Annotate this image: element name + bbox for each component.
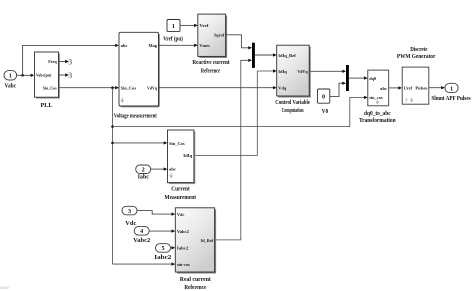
wire sin_cos long branch to dq0_to_abc	[113, 96, 368, 127]
wire Mux1 to IdIq_Ref	[255, 53, 277, 56]
wire Mux2 to dq0	[349, 76, 368, 79]
Current Measurement block	[165, 130, 197, 201]
svg-text:Vmes: Vmes	[199, 43, 210, 48]
wire Vabc to PLL input	[17, 74, 35, 77]
svg-text:1: 1	[172, 23, 175, 30]
svg-text:Mag: Mag	[149, 43, 158, 48]
svg-text:dq0: dq0	[369, 76, 377, 81]
wire Current IdIq to CVC IdIq	[194, 69, 277, 155]
outport 1 Shunt APF Pulses	[431, 83, 471, 102]
svg-text:1: 1	[9, 73, 12, 80]
svg-text:3: 3	[68, 57, 72, 66]
svg-text:Id_Ref: Id_Ref	[201, 238, 214, 243]
wire PLL wt to terminator	[59, 73, 69, 76]
svg-text:VdVq: VdVq	[147, 86, 157, 91]
svg-text:Pulses: Pulses	[415, 86, 427, 91]
svg-text:Vabc(pu): Vabc(pu)	[36, 73, 52, 78]
svg-text:IdIq: IdIq	[278, 69, 287, 74]
svg-text:Voltage measurement: Voltage measurement	[114, 112, 158, 119]
mux M2	[346, 65, 349, 91]
svg-text:IdIq: IdIq	[183, 153, 192, 158]
svg-text:0: 0	[322, 94, 325, 101]
svg-text:?: ?	[405, 99, 408, 105]
svg-text:Control Variable: Control Variable	[275, 99, 310, 106]
wire Sin_Cos vertical trunk	[112, 88, 114, 264]
svg-text:Freq: Freq	[48, 59, 57, 64]
svg-text:Reference: Reference	[184, 284, 206, 291]
wire abc to Uref	[389, 86, 402, 89]
constant 1	[163, 20, 183, 43]
svg-text:Sin_Cos: Sin_Cos	[121, 86, 137, 91]
Discrete PWM Generator block	[397, 46, 445, 104]
svg-text:1: 1	[450, 85, 453, 92]
svg-text:abc: abc	[380, 86, 387, 91]
svg-text:2: 2	[142, 167, 145, 174]
svg-text:Iabc2: Iabc2	[177, 246, 189, 251]
wire PLL Sin_Cos to Voltage measurement	[59, 86, 119, 89]
svg-text:Vdc: Vdc	[125, 220, 136, 227]
svg-text:Iqref: Iqref	[214, 33, 224, 38]
svg-text:Vabc2: Vabc2	[133, 237, 150, 244]
svg-text:Computation: Computation	[282, 107, 304, 114]
svg-text:Sin_Cos: Sin_Cos	[169, 141, 185, 146]
wire Vabc up-branch to Voltage measurement abc	[23, 44, 119, 76]
wire Vdc to Real current Reference	[137, 211, 175, 216]
wire Mag to Vmes	[159, 44, 198, 47]
wire Pulses to outport	[429, 87, 442, 89]
PLL block	[35, 52, 61, 109]
svg-text:Transformation: Transformation	[359, 117, 396, 124]
wire Iabc to abc	[151, 167, 168, 170]
svg-text:Vabc: Vabc	[5, 83, 17, 90]
svg-text:Measurement: Measurement	[165, 194, 197, 201]
constant 0	[318, 89, 330, 115]
Real current Reference block	[175, 208, 216, 291]
Voltage measurement block	[114, 32, 160, 119]
junction Vabc branch	[21, 74, 24, 77]
svg-text:Iabc2: Iabc2	[154, 254, 171, 261]
wire Vabc2	[149, 229, 175, 232]
wire sin_cos branch to Current Measurement	[113, 141, 168, 144]
svg-text:PWM Generator: PWM Generator	[397, 53, 436, 60]
wire Iabc2	[171, 246, 176, 249]
junction sin_cos to dq0 branch	[111, 125, 114, 128]
corner artifact	[0, 287, 9, 290]
junction sin_cos to current measurement branch	[111, 142, 114, 145]
svg-text:Uref: Uref	[404, 86, 413, 91]
junction Sin_Cos branch	[111, 86, 114, 89]
wire CVC VdVq to Mux2	[309, 70, 346, 73]
svg-text:IdIq_Ref: IdIq_Ref	[278, 53, 296, 58]
inport 1 Vabc	[4, 71, 17, 90]
svg-text:Sin_Cos: Sin_Cos	[43, 85, 57, 90]
svg-text:PLL: PLL	[41, 102, 53, 109]
wire Id_Ref to Mux1	[215, 59, 252, 240]
svg-text:Current: Current	[171, 185, 190, 192]
svg-text:Shunt APF Pulses: Shunt APF Pulses	[431, 95, 471, 102]
svg-text:Reference: Reference	[201, 67, 221, 74]
wire VdVq to Vdq	[159, 86, 277, 89]
inport 5 Iabc2	[154, 244, 171, 262]
svg-text:sin-cos: sin-cos	[177, 262, 190, 267]
svg-text:4: 4	[140, 228, 143, 235]
wire constant1 to Vref	[180, 24, 198, 27]
inport 2 Iabc	[136, 165, 151, 181]
svg-text:abc: abc	[121, 43, 128, 48]
dq0_to_abc Transformation block	[359, 70, 396, 124]
inport 3 Vdc	[122, 206, 137, 227]
Reactive current Reference block	[192, 14, 230, 74]
svg-text:5: 5	[161, 245, 164, 252]
svg-text:VdVq: VdVq	[297, 69, 308, 74]
svg-text:abc: abc	[169, 167, 176, 172]
svg-text:3: 3	[68, 71, 72, 80]
svg-text:Vdq: Vdq	[278, 85, 286, 90]
svg-text:Vabc2: Vabc2	[177, 229, 190, 234]
svg-text:sin_cos: sin_cos	[369, 95, 383, 100]
wire constant0 to Mux2	[330, 82, 346, 97]
mux M1	[252, 43, 255, 68]
svg-text:dq0_to_abc: dq0_to_abc	[364, 110, 391, 117]
svg-text:Real current: Real current	[180, 276, 212, 283]
svg-text:Vref (pu): Vref (pu)	[163, 35, 183, 42]
inport 4 Vabc2	[133, 227, 150, 245]
svg-text:Vref: Vref	[199, 23, 208, 28]
svg-text:Vdc: Vdc	[177, 212, 185, 217]
svg-text:3: 3	[128, 208, 131, 215]
svg-text:Iabc: Iabc	[138, 174, 149, 181]
svg-text:Reactive current: Reactive current	[192, 59, 230, 66]
wire PLL Freq to terminator	[59, 60, 69, 63]
Control Variable Computation block	[275, 45, 311, 114]
wire Iqref to Mux1	[226, 35, 252, 50]
svg-text:V0: V0	[322, 108, 329, 115]
wire sin-cos tail to Real current Reference	[113, 262, 176, 265]
